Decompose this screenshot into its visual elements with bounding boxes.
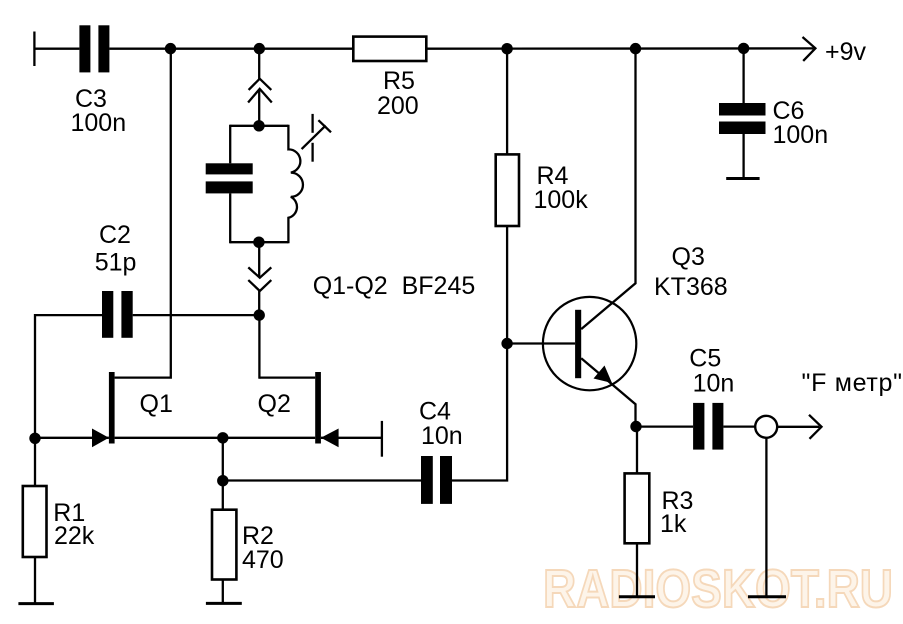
node: tank bottom — [253, 237, 264, 248]
wire: C4 node down to R2 — [222, 481, 224, 510]
svg-text:Q1-Q2 BF245: Q1-Q2 BF245 — [313, 272, 476, 300]
wire: Q2 gate to terminal — [321, 437, 382, 439]
wire: tank cap lower lead — [229, 193, 231, 243]
resistor R1 — [23, 486, 47, 557]
wire: output terminal down to ground — [765, 438, 767, 597]
node: rail / C6 — [738, 43, 749, 54]
svg-text:51p: 51p — [95, 249, 137, 277]
wire: tank bottom rail — [230, 241, 288, 243]
transistor Q3 — [543, 49, 636, 427]
connector chevrons (down) — [248, 267, 271, 291]
svg-text:10n: 10n — [421, 422, 463, 450]
ground (output) — [748, 595, 786, 598]
wire: C2 right to drain node — [133, 314, 260, 316]
svg-text:100n: 100n — [773, 121, 829, 149]
wire: source node down — [222, 438, 224, 481]
svg-text:Q2: Q2 — [258, 390, 291, 418]
gate terminal bar — [381, 421, 383, 457]
node: rail / Q1 drain — [165, 43, 176, 54]
svg-text:470: 470 — [242, 546, 284, 574]
wire: emitter node to C5 — [636, 425, 693, 427]
node: rail / R4 — [501, 43, 512, 54]
wire: rail down to R4 — [506, 49, 508, 155]
svg-text:22k: 22k — [54, 522, 95, 550]
svg-text:KT368: KT368 — [654, 273, 728, 301]
wire: tank cap upper lead — [229, 125, 231, 164]
wire: Q1 drain up to rail — [115, 49, 171, 378]
input terminal — [33, 32, 35, 67]
output terminal circle — [755, 416, 777, 438]
connector chevrons (up) — [248, 79, 272, 103]
inductor L (tank coil) — [288, 125, 303, 244]
wire: Q2 drain up — [259, 376, 315, 378]
wire: tank bottom to lower plug — [258, 242, 260, 276]
transistor Q1 (JFET) — [92, 372, 115, 447]
ground (C6) — [726, 177, 759, 180]
wire: Q2 source to common — [223, 437, 315, 439]
transistor Q2 (JFET) — [315, 372, 338, 447]
svg-text:C5: C5 — [689, 345, 721, 373]
node: rail / coil plug — [254, 43, 265, 54]
node: common source — [217, 432, 228, 443]
svg-text:RADIOSKOT.RU: RADIOSKOT.RU — [543, 559, 893, 619]
ground (R3) — [619, 595, 655, 598]
capacitor C4 — [421, 456, 452, 504]
wire: C5 to output terminal — [723, 425, 754, 427]
wire: terminal to arrow — [777, 426, 819, 428]
svg-text:100n: 100n — [71, 109, 127, 137]
wire: R5 to +9v arrow — [426, 47, 813, 50]
wire: input to C3 — [34, 48, 79, 50]
node: R2 / C4 — [217, 475, 228, 486]
svg-text:200: 200 — [377, 92, 419, 120]
node: gate / R1 — [29, 433, 40, 444]
tank capacitor — [206, 163, 253, 193]
svg-text:R5: R5 — [383, 67, 415, 95]
node: emitter / R3 / C5 — [630, 421, 641, 432]
wire: C4 to R4/base line — [452, 226, 507, 481]
capacitor C6 — [719, 103, 766, 134]
svg-text:100k: 100k — [534, 186, 589, 214]
wire: rail down to upper plug — [258, 49, 260, 80]
resistor R3 — [625, 473, 650, 543]
wire: emitter node down to R3 — [636, 427, 638, 474]
wire: C2 left to gate node — [35, 315, 102, 439]
wire: tank top rail — [230, 125, 288, 127]
+9v arrowhead — [803, 37, 816, 61]
resistor R2 — [212, 510, 236, 580]
svg-text:+9v: +9v — [825, 38, 867, 66]
svg-text:"F метр": "F метр" — [802, 369, 903, 397]
wire: C6 to ground — [742, 134, 744, 179]
svg-text:Q1: Q1 — [140, 390, 173, 418]
wire: R2 to ground — [222, 580, 224, 604]
node: C2 / Q2 drain — [254, 309, 265, 320]
wire: R3 to ground — [636, 543, 638, 596]
resistor R5 — [353, 37, 426, 61]
adjustable core symbol — [302, 114, 331, 162]
node: rail / Q3 collector — [630, 43, 641, 54]
ground (R2) — [206, 602, 242, 605]
ground (R1) — [18, 602, 54, 605]
wire: node down to Q2 drain — [258, 315, 260, 379]
svg-text:Q3: Q3 — [672, 243, 705, 271]
wire: R1 to ground — [34, 557, 36, 604]
wire: gate node down to R1 — [34, 438, 36, 486]
svg-text:10n: 10n — [693, 370, 735, 398]
node: Q3 base — [501, 338, 512, 349]
wire: gate line to Q1 — [34, 437, 109, 439]
output arrowhead — [809, 415, 822, 439]
node: tank top — [253, 120, 264, 131]
capacitor C3 — [79, 25, 109, 72]
capacitor C2 — [102, 291, 133, 338]
capacitor C5 — [693, 403, 723, 450]
svg-text:C2: C2 — [99, 221, 131, 249]
wire: base node to Q3 — [507, 342, 575, 344]
wire: lower plug to C2 node — [258, 291, 260, 316]
svg-text:1k: 1k — [660, 510, 687, 538]
resistor R4 — [496, 154, 519, 226]
wire: C3 to R5 (top rail) — [109, 48, 353, 50]
wire: Q1 source to common — [115, 437, 223, 439]
wire: node to C4 — [223, 479, 421, 481]
wire: plug to tank top — [258, 90, 260, 126]
wire: rail down to C6 — [742, 48, 744, 103]
